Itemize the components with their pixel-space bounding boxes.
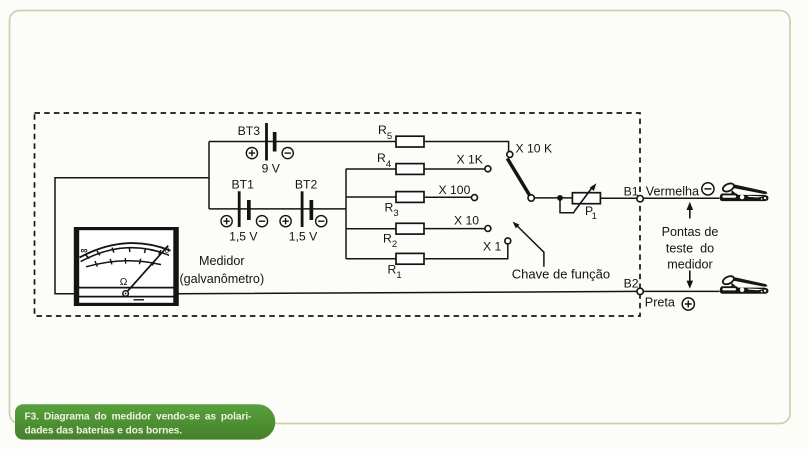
svg-text:1,5 V: 1,5 V <box>229 229 258 243</box>
switch S1 pivot <box>528 195 534 201</box>
svg-text:1: 1 <box>592 211 597 222</box>
wire: R3 row <box>346 196 472 198</box>
svg-text:Ω: Ω <box>120 277 128 288</box>
dashed enclosure (meter case outline) <box>35 113 641 316</box>
battery BT1 <box>221 177 268 243</box>
svg-text:∞: ∞ <box>81 245 88 256</box>
svg-text:medidor: medidor <box>667 257 713 271</box>
svg-text:X 100: X 100 <box>439 183 471 197</box>
svg-text:BT1: BT1 <box>232 177 255 191</box>
wire: 1.5V row <box>209 208 346 210</box>
switch S1 wiper <box>507 158 530 195</box>
resistor R1 <box>396 253 424 264</box>
switch contact X1K <box>485 166 491 172</box>
terminal B2 <box>637 288 643 294</box>
wire: resistor bus <box>345 169 347 259</box>
switch contact X1 <box>505 238 511 244</box>
svg-text:B2: B2 <box>624 276 639 290</box>
meter (galvanometer) <box>74 227 179 306</box>
resistor R2 <box>396 223 424 234</box>
label Medidor (galvanometro) <box>179 254 264 286</box>
svg-text:(galvanômetro): (galvanômetro) <box>179 272 264 286</box>
callout arrow to switch <box>516 225 544 267</box>
resistor R4 <box>396 164 424 175</box>
svg-text:X 1: X 1 <box>483 239 502 253</box>
svg-text:teste do: teste do <box>666 242 714 256</box>
svg-text:Vermelha: Vermelha <box>646 184 699 198</box>
battery BT2 <box>280 177 327 243</box>
wire: P1 to terminal B1 to red clip <box>600 197 719 199</box>
svg-text:R2: R2 <box>383 232 397 251</box>
svg-text:X 10: X 10 <box>454 213 479 227</box>
resistor R3 <box>396 192 424 203</box>
svg-text:9 V: 9 V <box>262 161 281 175</box>
svg-text:1,5 V: 1,5 V <box>289 229 318 243</box>
label Pontas de teste do medidor <box>662 225 719 271</box>
wire: R1 row <box>346 244 508 259</box>
arrow to B1 wire <box>687 202 694 219</box>
alligator clip (black lead) <box>720 275 769 294</box>
svg-text:X 1K: X 1K <box>457 153 483 167</box>
svg-text:0: 0 <box>165 246 170 255</box>
label Preta with plus <box>645 296 695 311</box>
svg-text:BT2: BT2 <box>295 177 318 191</box>
svg-text:R5: R5 <box>378 123 392 142</box>
svg-text:Pontas de: Pontas de <box>662 225 719 239</box>
wire: R5 to switch contact <box>424 142 509 152</box>
junction dot <box>557 195 563 201</box>
svg-text:Medidor: Medidor <box>199 254 245 268</box>
caption ribbon F3 <box>15 404 275 439</box>
wire: 9V row <box>209 141 396 143</box>
terminal B1 <box>637 196 643 202</box>
wire: meter to terminal B2 to black clip <box>179 291 720 293</box>
resistor R5 <box>396 136 424 147</box>
wire: switch pivot to P1 <box>534 197 572 199</box>
potentiometer P1 <box>560 183 600 222</box>
wire: battery bus vertical <box>208 142 210 209</box>
svg-text:Chave de função: Chave de função <box>512 267 610 282</box>
battery BT3 <box>238 123 294 175</box>
switch contact X10K <box>507 151 513 157</box>
switch contact X10 <box>485 226 491 232</box>
svg-text:BT3: BT3 <box>238 124 261 138</box>
switch contact X100 <box>472 195 478 201</box>
svg-text:Preta: Preta <box>645 296 675 310</box>
label Vermelha with minus <box>646 183 714 199</box>
svg-text:R4: R4 <box>377 151 391 170</box>
arrow to B2 wire <box>687 271 694 289</box>
alligator clip (red lead) <box>720 182 769 201</box>
svg-text:R1: R1 <box>388 262 402 281</box>
wire: R4 row <box>346 168 485 170</box>
svg-text:dades das baterias e dos borne: dades das baterias e dos bornes. <box>25 425 183 436</box>
wire: meter left branch <box>55 178 209 294</box>
svg-text:F3. Diagrama do medidor vendo-: F3. Diagrama do medidor vendo-se as pola… <box>25 411 252 422</box>
wire: R2 row <box>346 228 485 230</box>
svg-text:X 10 K: X 10 K <box>516 141 553 155</box>
svg-text:B1: B1 <box>624 185 639 199</box>
